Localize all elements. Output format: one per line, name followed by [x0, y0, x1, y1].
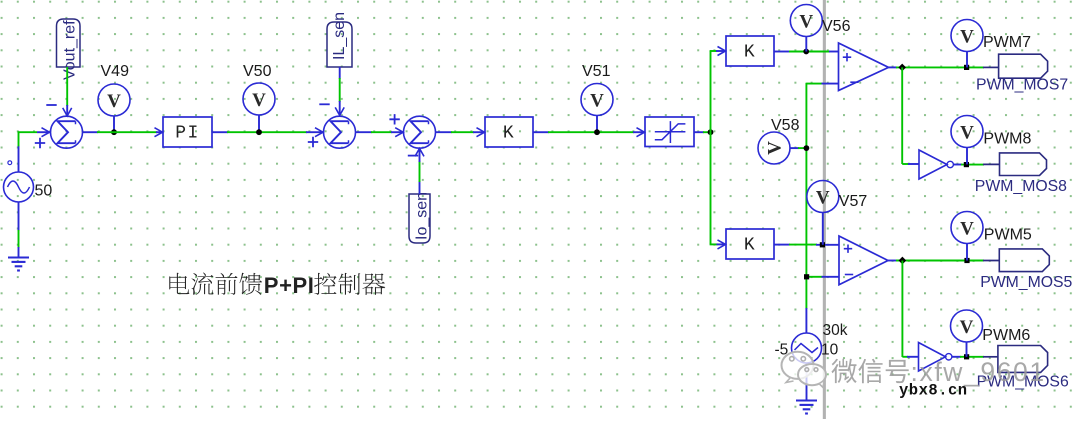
voltage probe PWM8 — [951, 116, 983, 148]
voltage probe V51 — [581, 84, 613, 116]
wire — [703, 131, 711, 133]
inverter G1 — [919, 150, 953, 179]
wire — [82, 131, 98, 133]
wire — [960, 356, 984, 358]
voltage probe V50 — [243, 83, 275, 115]
node — [820, 242, 825, 247]
wire — [533, 131, 549, 133]
wire — [902, 163, 909, 165]
wire — [339, 101, 341, 115]
wire — [18, 131, 37, 133]
wire — [694, 131, 704, 133]
wire — [710, 50, 717, 52]
wire — [822, 276, 840, 278]
svg-text:30k: 30k — [823, 322, 848, 339]
wire — [896, 260, 959, 262]
wire — [18, 146, 20, 173]
wire — [451, 131, 474, 133]
wire — [822, 83, 839, 85]
svg-text:V: V — [960, 219, 974, 240]
wire to inverter2 — [901, 261, 903, 358]
svg-text:PWM6: PWM6 — [982, 327, 1030, 344]
gate block PWM_MOS5 — [999, 249, 1049, 272]
node — [964, 162, 969, 167]
svg-text:PWM_MOS8: PWM_MOS8 — [975, 178, 1067, 195]
svg-text:V50: V50 — [243, 63, 272, 80]
gain block K1 — [485, 117, 533, 147]
svg-text:V51: V51 — [582, 63, 611, 80]
voltage probe V58 — [758, 132, 790, 164]
wire — [966, 342, 968, 357]
svg-text:V49: V49 — [101, 63, 130, 80]
wire — [113, 116, 115, 133]
wire to inverter1 — [901, 67, 903, 164]
node — [804, 145, 810, 151]
wire — [339, 67, 341, 79]
wire — [806, 363, 808, 400]
PI controller block — [163, 117, 212, 147]
wire — [18, 230, 20, 248]
wire — [902, 356, 908, 358]
wire — [953, 164, 962, 166]
svg-text:V: V — [960, 317, 974, 338]
gate block PWM_MOS6 — [998, 346, 1048, 373]
summing junction S1 — [51, 116, 83, 148]
svg-text:V: V — [816, 188, 830, 209]
wire — [907, 356, 919, 358]
svg-text:P+PI: P+PI — [264, 273, 315, 298]
svg-text:V: V — [960, 27, 974, 48]
summing junction S3 — [404, 116, 436, 148]
wire — [371, 131, 392, 133]
wire — [716, 50, 726, 52]
svg-text:V: V — [960, 123, 974, 144]
plus sign S2 — [308, 137, 318, 147]
ground left — [8, 258, 29, 271]
voltage probe V49 — [98, 84, 130, 116]
node — [708, 129, 714, 135]
voltage probe PWM6 — [951, 310, 983, 342]
svg-text:PWM_MOS5: PWM_MOS5 — [980, 274, 1072, 291]
wire — [18, 202, 20, 231]
node — [256, 129, 262, 135]
plus sign S3 — [389, 114, 399, 124]
wire — [227, 131, 307, 133]
minus sign S1 — [46, 104, 56, 106]
wire — [717, 243, 727, 245]
wire — [633, 131, 645, 133]
wire — [66, 105, 68, 116]
svg-text:ybx8.cn: ybx8.cn — [899, 382, 968, 400]
gate block PWM_MOS8 — [1000, 153, 1047, 176]
wire — [966, 51, 968, 67]
voltage probe V56 — [790, 5, 822, 37]
wire — [548, 131, 634, 133]
wire — [156, 131, 163, 133]
wire — [829, 51, 839, 53]
svg-text:K: K — [744, 43, 756, 63]
svg-text:Vout_ref: Vout_ref — [62, 20, 79, 80]
inverter G2 — [919, 343, 952, 372]
wire — [966, 243, 968, 260]
wire — [896, 66, 959, 68]
wire — [419, 161, 421, 182]
svg-text:PWM8: PWM8 — [983, 130, 1031, 147]
voltage label Vout_ref — [57, 19, 81, 80]
wire — [889, 66, 898, 68]
wire — [789, 244, 817, 246]
comparator U2 — [839, 236, 888, 285]
wire — [306, 131, 324, 133]
wire — [805, 36, 807, 51]
wire — [790, 147, 799, 149]
wire — [952, 356, 961, 358]
svg-text:V57: V57 — [839, 193, 868, 210]
wire — [774, 51, 790, 53]
comparator U1 — [839, 43, 889, 91]
node — [594, 129, 600, 135]
wire — [983, 163, 1000, 165]
node — [803, 49, 809, 55]
wire — [958, 66, 984, 68]
watermark text 微信号:xfw_9601 — [831, 357, 1045, 387]
wire — [258, 115, 260, 133]
wire — [789, 51, 830, 53]
summing junction S2 — [324, 116, 356, 148]
wire — [908, 163, 919, 165]
gain block K2 — [726, 36, 774, 66]
wire — [806, 83, 822, 85]
caption 电流前馈P+PI控制器 — [169, 273, 385, 298]
ac source 50Hz — [4, 161, 34, 202]
svg-text:V: V — [107, 91, 121, 112]
wire — [807, 276, 823, 278]
wire — [419, 181, 421, 194]
wire — [710, 243, 718, 245]
wire — [18, 247, 20, 257]
wire — [888, 260, 897, 262]
wire — [958, 260, 984, 262]
svg-text:10: 10 — [821, 342, 839, 359]
gray separator line — [823, 0, 826, 419]
wire — [473, 131, 485, 133]
wire — [774, 244, 790, 246]
node — [111, 129, 117, 135]
node — [898, 64, 906, 72]
wire — [391, 131, 404, 133]
svg-text:V56: V56 — [822, 18, 851, 35]
gate block PWM_MOS7 — [999, 54, 1048, 78]
current label IL_sen — [327, 12, 352, 67]
svg-text:50: 50 — [35, 183, 53, 200]
svg-text:V58: V58 — [771, 117, 800, 134]
minus sign S2 — [319, 103, 329, 105]
wire — [983, 356, 998, 358]
voltage probe V57 — [807, 181, 839, 213]
triangle wave source — [792, 333, 822, 363]
wire — [798, 147, 806, 149]
wire — [212, 131, 228, 133]
voltage probe PWM5 — [951, 212, 983, 244]
plus sign S1 — [35, 138, 45, 148]
svg-text:V: V — [765, 141, 786, 155]
node — [899, 257, 907, 265]
wire — [18, 131, 20, 146]
wire — [816, 244, 839, 246]
wire — [339, 78, 341, 102]
wire — [596, 115, 598, 132]
wire — [435, 131, 452, 133]
wire — [961, 164, 984, 166]
svg-text:PWM_MOS7: PWM_MOS7 — [976, 77, 1068, 94]
node — [964, 354, 969, 359]
wire carrier vertical — [805, 83, 807, 309]
node — [964, 65, 969, 70]
svg-text:K: K — [503, 124, 515, 144]
svg-text:V: V — [252, 90, 266, 111]
wire — [37, 131, 50, 133]
wire branch vertical — [710, 51, 712, 244]
wire — [419, 149, 421, 162]
current label Io_sen — [409, 192, 431, 243]
svg-text:V: V — [799, 12, 813, 33]
wire — [66, 67, 68, 106]
node — [964, 258, 969, 263]
svg-text:PWM5: PWM5 — [984, 226, 1032, 243]
wire — [822, 212, 824, 245]
limiter block — [645, 117, 694, 147]
ground right — [796, 401, 817, 414]
node — [804, 274, 809, 279]
wire — [966, 147, 968, 164]
svg-text:Io_sen: Io_sen — [414, 192, 431, 240]
svg-text:PWM7: PWM7 — [983, 34, 1031, 51]
svg-text:V: V — [590, 91, 604, 112]
minus sign S3 — [408, 155, 418, 157]
wire — [97, 131, 157, 133]
voltage probe PWM7 — [951, 20, 983, 52]
svg-text:K: K — [744, 236, 756, 256]
svg-text:IL_sen: IL_sen — [331, 12, 348, 60]
svg-text:PI: PI — [175, 124, 200, 144]
gain block K3 — [726, 229, 774, 259]
wechat icon — [782, 352, 827, 388]
wire — [983, 260, 999, 262]
wire — [355, 131, 372, 133]
wire — [805, 308, 807, 334]
wire — [983, 66, 999, 68]
